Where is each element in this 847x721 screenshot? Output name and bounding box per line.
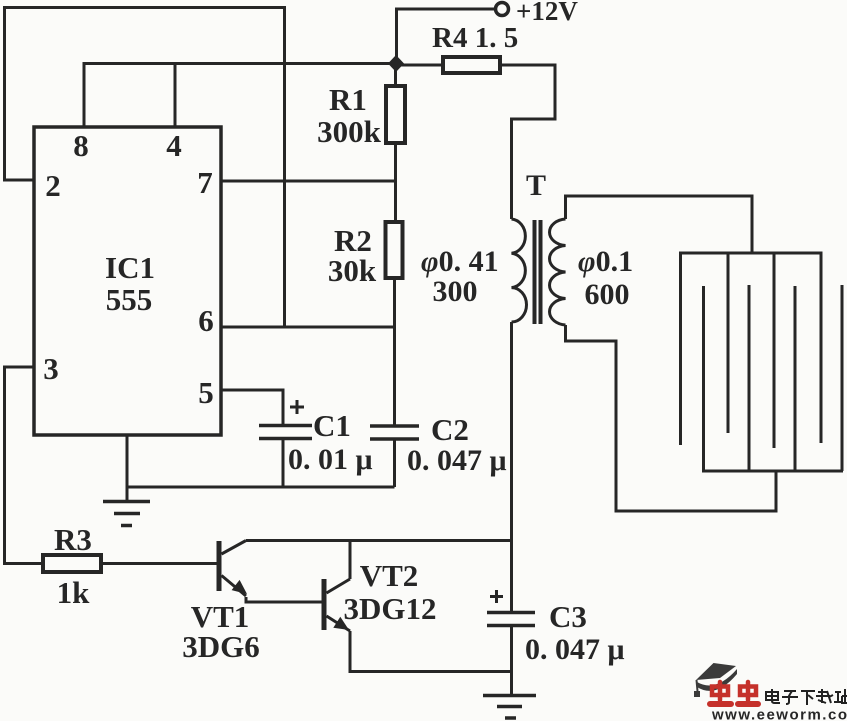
svg-text:2: 2 [45, 168, 61, 203]
pin 2 label [45, 168, 61, 203]
svg-text:8: 8 [73, 128, 89, 163]
transistor VT1 [182, 541, 260, 665]
resistor R3 [43, 522, 101, 610]
svg-text:1k: 1k [57, 575, 91, 610]
wire primary bottom to C3 node [510, 322, 513, 611]
node VCC junction dot [388, 55, 404, 72]
IC U1 555 box [34, 127, 221, 435]
electrode upper comb [681, 253, 822, 448]
svg-text:T: T [526, 169, 546, 202]
svg-text:300: 300 [433, 275, 478, 308]
svg-text:R4 1. 5: R4 1. 5 [432, 22, 518, 54]
IC1 555 label [105, 250, 155, 317]
wire pins 8 and 4 to VCC rail [84, 62, 396, 127]
wire VT1 emitter to VT2 base [246, 597, 322, 602]
ground bus wire [127, 486, 395, 489]
ground symbol (C3) [483, 696, 536, 719]
svg-text:3: 3 [43, 351, 59, 386]
label secondary φ0.1 600 [578, 245, 633, 311]
resistor R2 [328, 222, 403, 425]
watermark www.eeworm.com [711, 707, 847, 721]
wire secondary bottom to electrode [566, 325, 777, 511]
ground symbol (IC1) [103, 502, 150, 526]
svg-text:+12V: +12V [516, 0, 578, 26]
svg-text:555: 555 [106, 282, 153, 317]
pin 4 label [166, 128, 182, 163]
transistor VT2 [324, 558, 437, 631]
wire pin 3 to R3 [5, 367, 44, 564]
svg-text:VT2: VT2 [360, 558, 419, 593]
wire R4 to transformer primary [512, 64, 556, 220]
wire VT2 collector [349, 541, 352, 580]
svg-text:www.eeworm.com: www.eeworm.com [711, 707, 847, 721]
watermark 虫虫 characters [710, 682, 758, 704]
svg-text:0. 047 μ: 0. 047 μ [525, 633, 625, 666]
wire pin 2 to pin 6 feedback loop [5, 8, 285, 328]
svg-text:7: 7 [197, 165, 213, 200]
svg-text:30k: 30k [328, 253, 377, 288]
svg-text:3DG12: 3DG12 [344, 591, 437, 626]
capacitor C2 [370, 412, 507, 487]
svg-text:0. 01 μ: 0. 01 μ [288, 443, 373, 476]
+12V terminal [496, 0, 579, 26]
wire +12V to junction [397, 9, 496, 57]
transformer T primary winding [512, 219, 527, 322]
watermark graduation cap [694, 663, 737, 697]
svg-text:0. 047 μ: 0. 047 μ [407, 444, 507, 477]
transformer T secondary winding [550, 219, 566, 325]
pin 8 label [73, 128, 89, 163]
svg-text:5: 5 [198, 375, 214, 410]
label T [526, 169, 546, 202]
svg-text:600: 600 [585, 278, 630, 311]
svg-text:φ0. 41: φ0. 41 [421, 245, 499, 278]
svg-text:φ0.1: φ0.1 [578, 245, 633, 278]
watermark 电子下载站 text [766, 689, 847, 705]
wire pin 5 to C1 [221, 390, 283, 424]
capacitor C1 [259, 400, 373, 487]
wire collector bus [246, 539, 512, 542]
capacitor C3 [487, 590, 625, 694]
svg-text:4: 4 [166, 128, 182, 163]
resistor R1 [317, 64, 405, 223]
wire secondary top to electrode [566, 196, 753, 253]
wire VT2 emitter to ground node [350, 631, 512, 672]
svg-text:C3: C3 [549, 599, 587, 634]
svg-text:C2: C2 [431, 412, 469, 447]
transformer core [533, 220, 543, 324]
wire pin 6 to R2/C2 node [221, 326, 395, 329]
wire pin 7 to R1/R2 node [221, 180, 396, 183]
resistor R4 [396, 22, 555, 73]
pin 7 label [197, 165, 213, 200]
svg-text:6: 6 [198, 303, 214, 338]
pin 5 label [198, 375, 214, 410]
svg-text:R1: R1 [329, 82, 367, 117]
pin 6 label [198, 303, 214, 338]
svg-text:R3: R3 [54, 522, 92, 557]
svg-text:IC1: IC1 [105, 250, 155, 285]
wire R3 to VT1 base [101, 562, 217, 565]
svg-text:C1: C1 [313, 408, 351, 443]
pin 3 label [43, 351, 59, 386]
electrode lower comb [704, 285, 844, 471]
label primary φ0.41 300 [421, 245, 499, 308]
wire IC1 ground pin [126, 434, 129, 500]
svg-text:3DG6: 3DG6 [182, 629, 260, 664]
svg-text:300k: 300k [317, 114, 382, 149]
